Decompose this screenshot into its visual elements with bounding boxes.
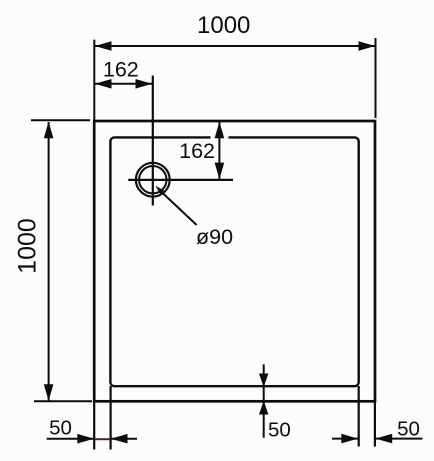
inner square (tray inner edge) <box>110 137 358 386</box>
svg-text:1000: 1000 <box>13 218 41 274</box>
dimension 162 top: right arrowhead <box>136 79 153 89</box>
dimension 1000 left: extension line top <box>31 119 90 121</box>
dimension 162 top: dimension line <box>95 83 152 85</box>
dimension 50 bottom-right: left tail line <box>332 438 358 440</box>
dimension 50 bottom-middle: down arrowhead <box>259 374 268 388</box>
dimension 1000 top: extension line right <box>375 38 377 118</box>
leader arrowhead <box>155 186 165 196</box>
dimension 162 vertical: dimension line <box>218 122 220 180</box>
dimension 1000 left: extension line bottom <box>34 400 92 402</box>
drain centerline horizontal <box>128 179 233 181</box>
svg-text:50: 50 <box>397 418 420 441</box>
svg-text:50: 50 <box>268 419 291 442</box>
dimension 50 bottom-right: left-pointing arrowhead <box>376 434 393 444</box>
dimension 50 bottom-right: extension line inner (right wall inner) <box>358 386 360 447</box>
dimension 50 bottom-left: extension line outer (left wall outer) <box>93 401 95 450</box>
dimension 50 bottom-left: right tail line <box>111 438 137 440</box>
drain centerline vertical (extension of 162 dim) <box>152 76 154 206</box>
dimension 50 bottom-middle: up arrowhead <box>259 401 268 415</box>
dimension 1000 top: dimension line <box>95 45 375 47</box>
dimension 50 bottom-middle: dimension line <box>263 364 265 437</box>
dimension 162 vertical: up arrowhead <box>215 122 225 139</box>
dimension 1000 top: right arrowhead <box>359 41 376 51</box>
dimension 1000 left: up arrowhead <box>44 122 54 139</box>
dimension 50 bottom-left: left tail line <box>47 438 94 440</box>
dimension 1000 left: down arrowhead <box>44 384 54 401</box>
drain inner circle <box>139 166 166 193</box>
dimension 50 bottom-left: left-pointing arrowhead <box>111 434 128 444</box>
dimension 50 bottom-right: right tail line <box>376 438 423 440</box>
dimension 1000 left: dimension line <box>48 122 50 401</box>
svg-text:1000: 1000 <box>197 12 250 39</box>
gap in inner edge at vertical 162 dimension arrow <box>211 134 229 140</box>
drain outer circle <box>136 163 170 197</box>
dimension 50 bottom-right: right-pointing arrowhead <box>341 434 358 444</box>
svg-text:50: 50 <box>49 416 72 439</box>
svg-text:162: 162 <box>179 139 215 163</box>
outer square (tray outline) <box>94 121 375 401</box>
dimension 1000 top: left arrowhead <box>95 41 112 51</box>
dimension 1000 top: extension line left <box>93 40 95 121</box>
leader line for drain diameter <box>161 192 197 226</box>
dimension 162 top: left arrowhead <box>95 79 112 89</box>
dimension 50 bottom-right: extension line outer (right wall outer) <box>374 401 376 447</box>
dimension 162 vertical: down arrowhead <box>215 163 225 180</box>
svg-text:162: 162 <box>103 57 139 81</box>
dimension 50 bottom-left: extension line inner (left wall inner) <box>109 386 111 450</box>
svg-text:ø90: ø90 <box>196 225 233 249</box>
dimension 50 bottom-left: red measured segment <box>95 438 110 440</box>
dimension 50 bottom-left: right-pointing arrowhead <box>77 434 94 444</box>
